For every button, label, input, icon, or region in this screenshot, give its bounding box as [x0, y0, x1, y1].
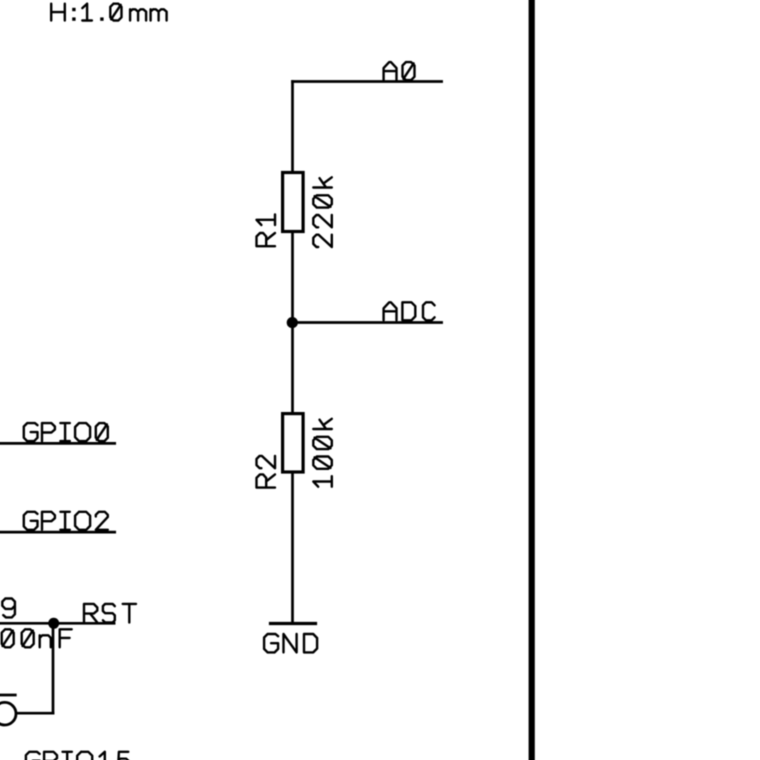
resistor R1 body — [283, 173, 304, 232]
ground symbol GND bar — [271, 622, 316, 625]
wire RST junction down to switch — [52, 623, 55, 713]
resistor R2 body — [283, 414, 304, 472]
wire A0 to R1 pin 1 — [291, 82, 294, 173]
net label GPIO0 — [24, 423, 108, 441]
pin number 9 — [2, 599, 15, 618]
net label GPIO2 — [24, 512, 108, 530]
net label RST — [84, 604, 136, 623]
net label GPIO15 (partial) — [26, 752, 129, 760]
net label ADC — [384, 302, 435, 320]
wire R1 pin 2 to node ADC to R2 pin 1 — [291, 232, 294, 414]
net label A0 — [384, 62, 415, 80]
junction node RST — [48, 618, 59, 629]
wire net GPIO2 — [0, 531, 115, 534]
ground label GND — [264, 634, 317, 652]
pushbutton SW contact circle — [0, 702, 16, 725]
wire net A0 horizontal — [293, 80, 442, 83]
wire net ADC horizontal — [293, 321, 442, 324]
pushbutton SW actuator bar — [0, 694, 15, 697]
value 220k of R1 — [313, 177, 332, 247]
wire switch pin to corner — [17, 712, 53, 715]
wire net GPIO0 — [0, 442, 115, 445]
text H:1.0mm — [51, 4, 166, 21]
junction node ADC — [287, 317, 298, 328]
reference R2 — [257, 456, 276, 488]
capacitor value 100nF (partial 00nF) — [2, 629, 72, 647]
reference R1 — [257, 215, 276, 247]
value 100k of R2 — [313, 419, 332, 487]
wire R2 pin 2 to GND — [291, 472, 294, 624]
sheet border line — [529, 0, 535, 760]
wire net RST — [0, 622, 114, 625]
